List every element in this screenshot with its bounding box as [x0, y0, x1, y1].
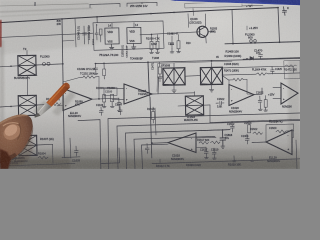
filter FL2061 two-circle [40, 55, 50, 66]
wire U1602 output [92, 98, 119, 99]
wire between filter rows [26, 76, 28, 96]
feedback resistor U1468 [229, 78, 254, 94]
capacitor C1615 [145, 143, 149, 153]
pen shadow on paper [34, 91, 77, 116]
wire down from R1607 [52, 144, 55, 163]
junction bus y62 x211 [211, 60, 213, 62]
wire op-amp U1401 output [152, 77, 195, 94]
resistor R1614 [244, 121, 252, 133]
junction bus D left [61, 18, 63, 20]
ground for U14 [132, 44, 136, 50]
op-amp U1401 [124, 84, 152, 104]
red sliver left edge [0, 20, 2, 47]
diode D1602 [8, 156, 22, 164]
wire main bus D [0, 8, 278, 23]
label C1099 CH U16 [77, 67, 96, 71]
junction x62 bus [62, 63, 64, 65]
filter FL2060 top right [245, 33, 256, 44]
pin T3 top [23, 47, 27, 56]
resistor R1617 [197, 139, 210, 144]
right section box [284, 60, 300, 79]
bottom bus right [152, 159, 300, 164]
caps above shield corners 2 [115, 103, 123, 114]
label under U1468 [229, 106, 242, 113]
capacitor C1048 column left of ICs [77, 25, 92, 44]
misc smudge text top right of mid bus [152, 56, 219, 60]
capacitor C1616 bold [220, 131, 233, 146]
grounds right mid [258, 106, 267, 111]
feedback loop U1620 [266, 124, 294, 142]
wire vertical x75 [75, 18, 76, 47]
grounds under R1608 row [102, 102, 121, 112]
wire U1620 output [252, 141, 266, 144]
pins XF1009 [212, 63, 230, 90]
junction on bus D [150, 13, 152, 15]
wire U1618 output [152, 142, 168, 145]
junction bus D right [277, 7, 279, 9]
bracket strip 2 [127, 2, 157, 6]
label 74123 above op-amp [138, 90, 148, 96]
junction U1602 output [98, 98, 100, 100]
ground C1617 [205, 158, 209, 159]
resistor network R1009 [146, 35, 160, 50]
mid bus y62 [95, 58, 300, 63]
capacitor C1603 [72, 146, 80, 163]
label FL1603 [184, 116, 198, 122]
junction y131 bus [222, 129, 224, 131]
label under U1602 [68, 111, 81, 118]
label under U1620 [267, 155, 280, 162]
ground R1009 [150, 49, 160, 53]
dark corner bottom-left [0, 149, 11, 169]
bottom-left bus [0, 163, 75, 166]
ground C1616 [221, 146, 225, 148]
paper sheet background [0, 0, 300, 169]
pin 14 of U13 [108, 23, 112, 28]
ground marks bottom bus [160, 156, 254, 163]
label box S1008 [188, 14, 202, 28]
staircase shield corner 6 [142, 144, 169, 169]
wire vertical x148 [148, 62, 149, 96]
left edge shading [0, 40, 4, 169]
parts inside IC box left [93, 24, 102, 45]
wire op-amp U1401 inputs [104, 88, 124, 100]
op-amp U1602 [63, 89, 92, 111]
wire vertical x232 [232, 9, 233, 43]
resistor R1602 [46, 97, 61, 105]
pins XF1008 [158, 63, 201, 90]
wire vertical x62 [62, 19, 64, 158]
wire drop from bus D to IC box [96, 17, 98, 23]
shield bottom corner [101, 148, 120, 164]
wire vertical x278 [278, 8, 280, 43]
wire U1469 inputs [273, 87, 281, 98]
ground C1619 [213, 158, 217, 159]
capacitor C1622b [216, 98, 225, 109]
capacitor C1619 [211, 148, 219, 158]
staircase shield corner 2 [108, 113, 300, 169]
label R1608 row [96, 86, 115, 90]
crystal filter XF1008 [163, 68, 185, 85]
pins FL1603 [178, 92, 210, 107]
label TC4069 [130, 58, 143, 60]
paper crease line 2 [0, 13, 70, 17]
resistor R1604 [38, 151, 48, 159]
wire into label box [192, 8, 194, 15]
wire FL1602 right pin [36, 103, 52, 106]
wire T3 right pin [36, 64, 63, 65]
ceramic filter T3 [18, 55, 36, 75]
wire feedback loop U1602 [63, 77, 99, 99]
junction base wire [151, 34, 153, 36]
resistor R1613 [147, 107, 155, 123]
wire FL1603 to bus [209, 105, 211, 123]
wire T3 left pin [0, 65, 18, 67]
label row mid small [151, 42, 191, 46]
diode D1470 [250, 57, 253, 60]
photo grain overlay [0, 0, 300, 169]
junction y122 [231, 121, 233, 123]
op-amp U1618 left-pointing [168, 133, 196, 153]
IC U14 [127, 27, 141, 43]
op-amp U1468 [229, 85, 254, 106]
transistor Q1008 [197, 26, 214, 37]
right bus y42 [225, 42, 300, 44]
caps above shield corners [96, 104, 104, 115]
wire vertical x70 [62, 138, 80, 158]
crystal filter XF1009 [200, 67, 222, 84]
capacitor C1106b under bus [103, 63, 106, 80]
op-amp U1469 [281, 83, 298, 104]
node on bus A [34, 2, 36, 6]
resistor R1472 in right box [284, 65, 297, 72]
ground C1010 [170, 49, 180, 54]
pen metal tip [34, 103, 51, 118]
label +W [246, 3, 252, 8]
junction x232 [232, 43, 234, 45]
wire vertical right x296 [296, 140, 297, 169]
wire mid-right row3 [222, 73, 300, 75]
label ELL20 smudges midleft [75, 100, 83, 107]
wire emitter of Q1008 [205, 37, 207, 43]
wire from bus E to IC box [62, 39, 74, 42]
wire FL1602 left pin [0, 106, 18, 108]
junction U1618 output [151, 142, 153, 144]
wire right of title strip [242, 4, 263, 7]
resistor R1473 [264, 96, 267, 108]
wire FL1605 right pin [37, 143, 53, 146]
wire between filter rows 2 [27, 116, 29, 136]
right edge shading [288, 60, 300, 169]
ceramic filter FL1605 [19, 135, 37, 155]
bottom shadow band [0, 150, 300, 169]
capacitor C1622 [256, 91, 264, 106]
finger shadow on paper [0, 125, 33, 167]
tick mark [246, 26, 248, 30]
component stack C1471 [152, 62, 162, 82]
paper crease line [0, 8, 92, 12]
wire mid vertical x155 [155, 108, 156, 135]
IC section box [93, 21, 164, 50]
resistor R1608 [103, 95, 106, 102]
wire U1618 inputs [196, 137, 216, 147]
capacitor C1040 top right [283, 6, 290, 15]
paper edge highlight under table strip [176, 1, 300, 6]
label R1620 [269, 119, 283, 129]
staircase shield corner 4 [126, 130, 231, 169]
wire bus E [0, 33, 93, 37]
capacitor C1625 [270, 67, 282, 75]
junction x278 [279, 41, 281, 43]
label 3/8 [57, 19, 62, 26]
capacitor C1470 [254, 49, 263, 59]
wire collector of Q1008 [205, 14, 207, 27]
title strip rectangle [185, 2, 242, 8]
junction base wire 2 [171, 33, 173, 35]
resistor R1622 [250, 128, 263, 134]
label under U1618 [171, 154, 184, 161]
bracket strip 1 [90, 4, 120, 8]
capacitor C1609 [117, 98, 121, 108]
capacitor C1612 [227, 122, 235, 132]
resistor R1609 [111, 94, 114, 101]
wire mid-right row2 [222, 66, 294, 73]
junction mid bus [147, 61, 149, 63]
label Q1008 [210, 28, 218, 34]
capacitor C1617 [200, 147, 208, 157]
fingernail [0, 121, 23, 143]
section box filters [157, 61, 232, 91]
pin 14 of U14 [134, 23, 139, 28]
fingertip [0, 114, 33, 164]
feedback resistor R1099 [80, 71, 99, 78]
staircase shield corner 3 [117, 120, 300, 169]
pen body orange [46, 82, 71, 107]
ceramic filter FL1603 [185, 96, 203, 115]
input network box [104, 88, 117, 96]
wire bottom bus y131 [151, 130, 230, 133]
label row bottom [156, 162, 241, 168]
staircase shield corner 1 [78, 120, 101, 169]
wire right bus y58 [243, 58, 300, 60]
IC U13 [105, 28, 119, 44]
resistor FL1604 zigzag [256, 73, 268, 76]
label R1469 [225, 50, 242, 58]
capacitor C1010 network [167, 32, 180, 49]
op-amp U1620 left-pointing [266, 130, 292, 155]
wire mid vertical x150 [150, 97, 152, 158]
staircase shield corner 5 [134, 136, 215, 169]
ground for U13 [110, 44, 114, 50]
ceramic filter FL1602 [18, 95, 36, 115]
wire U1468 output [254, 88, 262, 95]
bottom bus y122 right [210, 119, 300, 122]
capacitor C1623 [241, 134, 249, 144]
label C1053 vertical [123, 44, 129, 57]
resistor R1618 [211, 141, 221, 144]
junction mid-right rows [246, 58, 248, 60]
capacitor C1105 under bus [94, 63, 98, 75]
ground XF1009 [209, 90, 213, 92]
ground XF1008 [172, 90, 176, 92]
table edge: navy strip top right [170, 0, 300, 5]
wire top bus A [0, 4, 90, 6]
wire bus into U1602 top [56, 92, 63, 106]
wire base of Q1008 [140, 32, 200, 35]
